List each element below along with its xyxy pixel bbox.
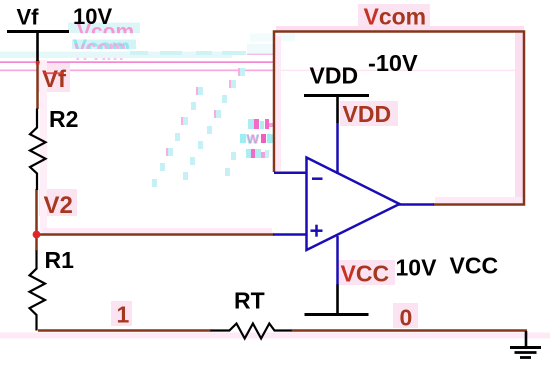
svg-text:R1: R1 [45,247,75,273]
svg-text:1: 1 [117,302,130,328]
svg-text:Vcom: Vcom [364,4,427,30]
svg-text:0: 0 [400,304,413,330]
svg-text:VCC: VCC [450,253,499,279]
svg-text:VCC: VCC [341,260,390,286]
svg-text:10V: 10V [396,254,438,280]
svg-text:VDD: VDD [343,101,392,127]
svg-text:Vf: Vf [17,5,40,30]
svg-text:W: W [247,132,260,147]
svg-text:10V: 10V [73,4,112,29]
svg-text:Vf: Vf [42,66,67,93]
svg-text:VDD: VDD [310,62,359,88]
svg-text:RT: RT [234,288,265,314]
svg-text:-10V: -10V [368,50,418,76]
svg-text:V2: V2 [44,192,73,219]
svg-text:R2: R2 [49,106,78,132]
